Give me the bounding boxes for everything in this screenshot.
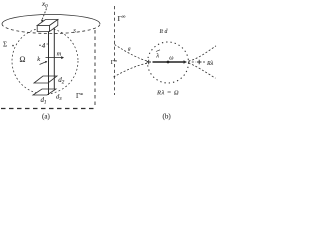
label lambda near plate xyxy=(39,45,40,46)
fig b: right plus marker xyxy=(197,60,202,65)
rim ellipse front arc (dashed) xyxy=(2,24,100,34)
fig b: segment arrowhead xyxy=(184,60,188,63)
bottom upper parallelogram xyxy=(34,76,57,83)
svg-text:Rλ: Rλ xyxy=(206,61,214,67)
fig b: spectrum segment xyxy=(153,61,185,63)
fig b: center dot xyxy=(167,61,170,64)
fig b: hyperbola upper-left branch xyxy=(115,45,148,62)
svg-text:4: 4 xyxy=(42,42,46,50)
plate right edge xyxy=(53,28,55,90)
svg-text:It d: It d xyxy=(159,29,168,35)
surface box front face xyxy=(37,26,49,32)
fig b: dotted circle xyxy=(148,42,189,83)
m arrow xyxy=(46,57,62,59)
fig b: hyperbola lower-left branch xyxy=(114,63,148,77)
fig b: left vertical dashed line xyxy=(114,6,116,95)
surface box top face xyxy=(37,20,58,26)
rim ellipse back arc (free surface, solid) xyxy=(2,14,100,24)
fig b: dash after right plus xyxy=(203,61,207,63)
plate left edge xyxy=(48,32,50,96)
truncation boundary: right vertical dashed line xyxy=(94,30,96,108)
surface box right face xyxy=(50,20,58,32)
svg-text:(b): (b) xyxy=(163,113,172,121)
svg-text:Rλ = Ω: Rλ = Ω xyxy=(156,90,179,97)
sphere: big dashed circle xyxy=(12,28,78,94)
svg-text:k: k xyxy=(37,56,40,63)
svg-text:Σ: Σ xyxy=(3,41,7,49)
fig b: hyperbola upper-right branch xyxy=(189,46,217,61)
svg-text:(a): (a) xyxy=(42,113,50,121)
fig b: hyperbola lower-right branch xyxy=(189,63,216,78)
svg-text:ω: ω xyxy=(169,56,173,62)
sigma leader dot xyxy=(12,45,14,47)
svg-text:m: m xyxy=(57,51,62,58)
truncation boundary: bottom dashed line xyxy=(1,108,95,110)
fig b: dashed axis to right plus xyxy=(188,61,196,63)
k arrow xyxy=(40,62,47,65)
bottom lower parallelogram xyxy=(33,89,56,95)
svg-text:λ: λ xyxy=(155,53,159,60)
svg-text:Ω: Ω xyxy=(20,55,26,64)
fig b: left plus marker xyxy=(146,60,151,65)
x0 leader dotted line xyxy=(42,9,47,21)
